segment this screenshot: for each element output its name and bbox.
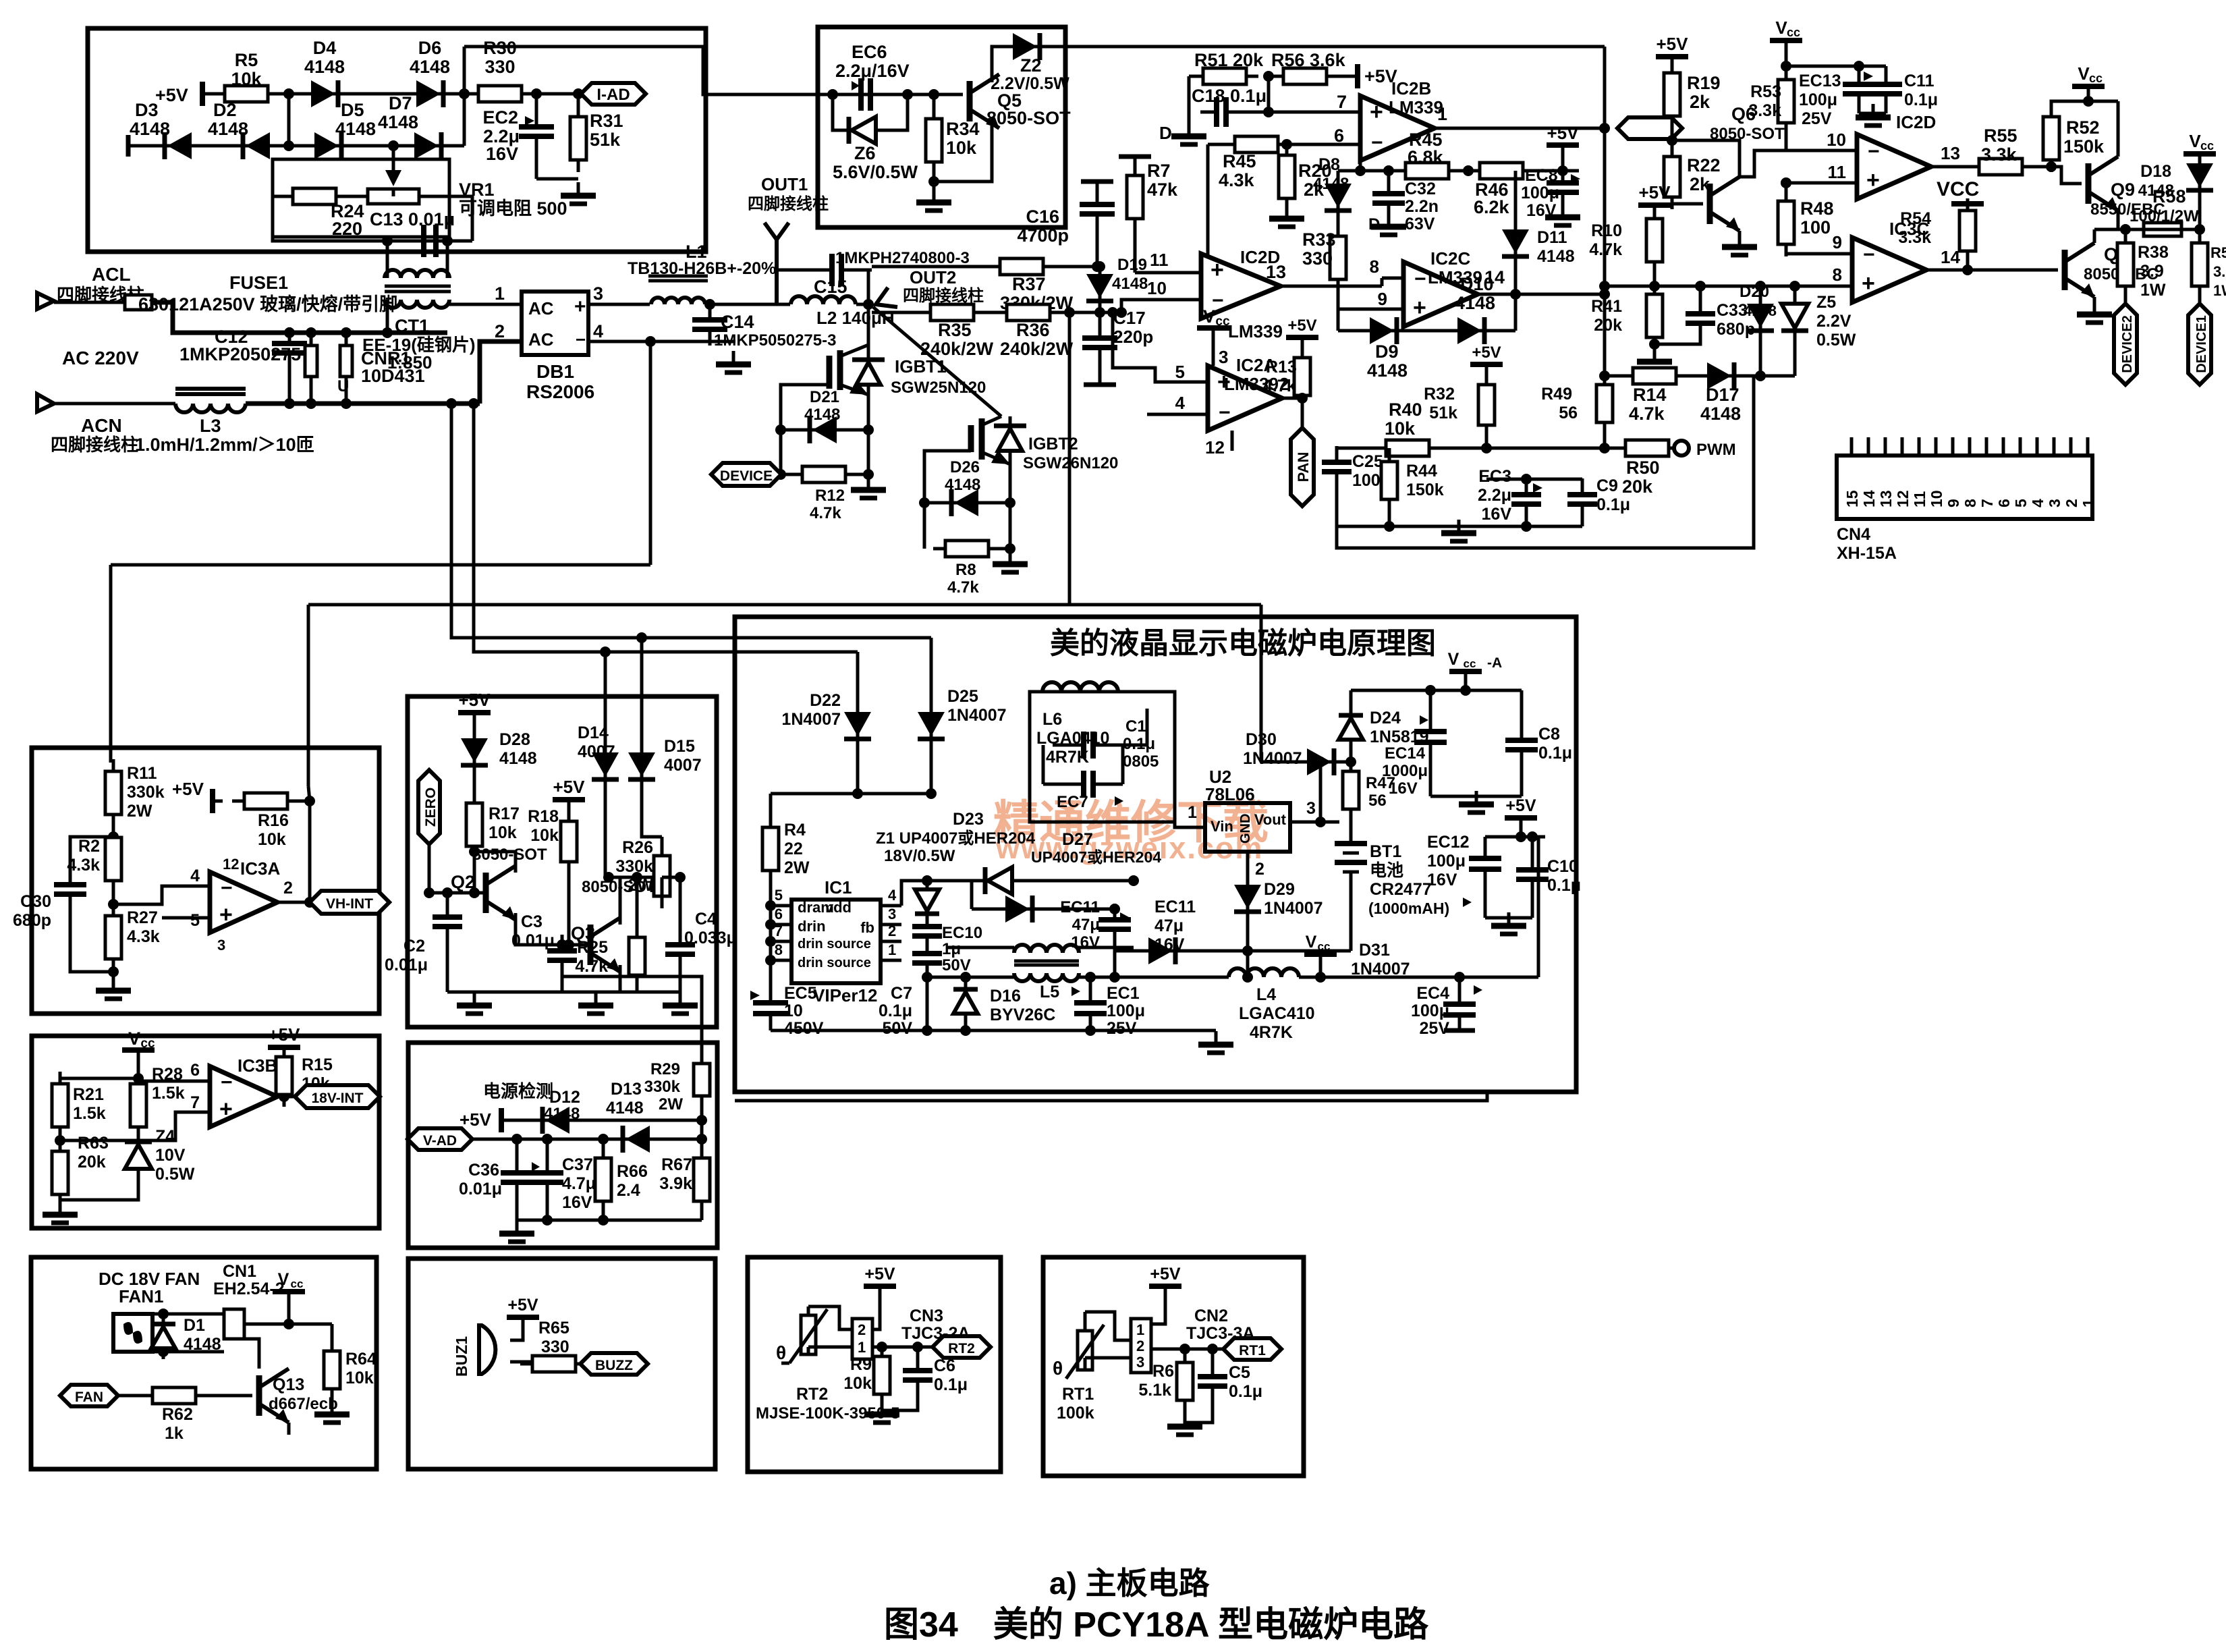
svg-text:四脚接线柱: 四脚接线柱 [51, 435, 138, 455]
wire box7 gnd bus [771, 1029, 1216, 1032]
capacitor EC12 [1484, 837, 1487, 856]
svg-text:3.3k: 3.3k [1981, 144, 2018, 165]
resistor R32 [1470, 362, 1503, 367]
svg-text:DEVICE2: DEVICE2 [2120, 315, 2135, 373]
svg-text:I-AD: I-AD [596, 86, 630, 104]
capacitor C1 [1053, 744, 1074, 747]
svg-text:SGW25N120: SGW25N120 [891, 379, 986, 397]
svg-text:6: 6 [190, 1061, 200, 1080]
svg-text:V: V [128, 1028, 140, 1049]
svg-text:EC5: EC5 [784, 984, 817, 1003]
capacitor C11 [1859, 65, 1886, 68]
connector tag I-AD [581, 83, 646, 105]
svg-text:8: 8 [775, 941, 783, 958]
svg-text:Z6: Z6 [854, 143, 876, 163]
ground R9 [864, 1401, 899, 1423]
wire IC2D-r in11 [1815, 182, 1857, 185]
diode D22 [856, 652, 860, 711]
svg-text:−: − [576, 329, 586, 350]
svg-text:EC12: EC12 [1427, 833, 1470, 852]
terminal BUZZ tag [580, 1353, 648, 1375]
svg-text:0.5W: 0.5W [1816, 331, 1856, 350]
resistor R56 [1271, 68, 1339, 84]
svg-text:D13: D13 [611, 1080, 642, 1099]
svg-text:ACL: ACL [92, 264, 131, 285]
svg-text:IC1: IC1 [825, 877, 852, 898]
svg-text:D24: D24 [1370, 709, 1401, 727]
svg-text:2.2μ: 2.2μ [1478, 486, 1511, 505]
svg-text:R5: R5 [235, 50, 258, 70]
svg-text:IC2C: IC2C [1430, 248, 1470, 269]
svg-text:R53: R53 [1750, 82, 1781, 101]
svg-text:4007: 4007 [578, 742, 615, 761]
svg-text:R33: R33 [1302, 229, 1336, 250]
svg-text:+: + [1866, 167, 1880, 193]
capacitor C8 [1520, 690, 1524, 737]
svg-text:L6: L6 [1042, 710, 1062, 729]
svg-text:C4: C4 [695, 910, 717, 929]
node IGBT1 top [863, 299, 874, 310]
wire fuse to bus [152, 302, 447, 333]
resistor R63 [59, 1127, 62, 1151]
svg-text:a) 主板电路: a) 主板电路 [1049, 1566, 1211, 1601]
svg-text:FAN: FAN [75, 1389, 103, 1405]
box: CN2/RT1 block [1043, 1257, 1304, 1476]
svg-text:C3: C3 [521, 912, 542, 931]
svg-text:VH-INT: VH-INT [326, 896, 373, 912]
transistor Q3 [590, 918, 620, 972]
svg-text:2: 2 [2063, 499, 2080, 507]
wire DB1 pin1 [449, 303, 522, 306]
svg-text:3.9: 3.9 [2213, 263, 2226, 280]
svg-text:1: 1 [1188, 803, 1197, 822]
capacitor C16 [1096, 182, 1099, 201]
svg-text:+5V: +5V [459, 690, 491, 710]
svg-text:4148: 4148 [410, 57, 450, 77]
wire IC2D-r in10 [1786, 149, 1857, 153]
svg-text:R55: R55 [1984, 126, 2018, 146]
svg-text:4148: 4148 [130, 119, 170, 139]
svg-text:D1: D1 [184, 1316, 205, 1335]
op-amp IC3B [210, 1066, 277, 1127]
resistor R9 [881, 1347, 884, 1355]
svg-text:R49: R49 [1541, 385, 1572, 404]
svg-text:RT1: RT1 [1239, 1343, 1266, 1358]
svg-text:0.01μ: 0.01μ [385, 956, 428, 974]
svg-text:D30: D30 [1246, 730, 1277, 749]
Vcc IC2A [1197, 306, 1230, 346]
svg-text:L5: L5 [1040, 983, 1059, 1001]
svg-text:3: 3 [1306, 799, 1316, 818]
resistor R45b [1223, 136, 1290, 153]
svg-text:20k: 20k [78, 1153, 106, 1172]
wire U2 pin1 [1175, 822, 1205, 827]
wire IC3A in5 [162, 916, 210, 920]
svg-text:+5V: +5V [553, 777, 586, 797]
svg-text:D8: D8 [1318, 155, 1340, 174]
terminal DEVICE [711, 463, 781, 486]
resistor R14 [1621, 368, 1688, 384]
svg-text:cc: cc [1215, 314, 1230, 329]
ground box6 [517, 1219, 702, 1222]
resistor R36 [995, 304, 1062, 321]
svg-text:R36: R36 [1016, 320, 1050, 340]
svg-text:C6: C6 [934, 1356, 955, 1375]
svg-text:4148: 4148 [304, 57, 345, 77]
wire IC2A in5 [1113, 312, 1208, 382]
op-amp IC2A [1208, 366, 1282, 431]
svg-text:330k: 330k [127, 783, 165, 802]
svg-text:Q9: Q9 [2111, 180, 2135, 200]
svg-text:R52: R52 [2066, 117, 2100, 138]
diode D3 [154, 132, 202, 159]
svg-text:5.1k: 5.1k [1138, 1381, 1171, 1400]
svg-text:2.4: 2.4 [617, 1181, 640, 1200]
svg-text:R32: R32 [1424, 385, 1455, 404]
svg-text:5: 5 [2012, 499, 2030, 507]
svg-text:LM339: LM339 [1389, 97, 1443, 117]
svg-text:0.01μ: 0.01μ [511, 931, 555, 950]
svg-text:C11: C11 [1904, 72, 1935, 90]
svg-text:−: − [1219, 402, 1231, 424]
svg-text:2.2n: 2.2n [1405, 197, 1439, 216]
wire D22 D25 row [771, 792, 931, 796]
capacitor C10 [1531, 837, 1534, 866]
wire L5 out [1013, 973, 1016, 977]
svg-text:C18 0.1μ: C18 0.1μ [1192, 86, 1267, 106]
resistor R29 [563, 976, 702, 1064]
svg-text:+5V: +5V [1639, 182, 1671, 202]
wire W2 [308, 603, 1261, 607]
svg-text:4148: 4148 [1313, 175, 1349, 193]
svg-text:1N4007: 1N4007 [1243, 749, 1302, 768]
wire Q5 collector [992, 47, 1009, 82]
resistor R5 [213, 86, 280, 102]
resistor R53 [1781, 61, 1791, 72]
terminal ZERO [418, 770, 440, 844]
svg-text:4: 4 [2029, 499, 2047, 507]
svg-text:4148: 4148 [1537, 247, 1575, 266]
diode D16 [964, 977, 968, 987]
resistor R31 [577, 94, 580, 117]
diode D1 real [162, 1314, 165, 1321]
diode IGBT1 freewheel [852, 358, 885, 362]
wire Q9 emitter [2117, 211, 2120, 229]
node wiper [388, 140, 399, 151]
resistor R38 [2117, 231, 2134, 298]
capacitor EC7 [1043, 783, 1074, 786]
svg-text:R25: R25 [577, 938, 608, 957]
terminal VH-INT [310, 891, 389, 914]
transistor Q9 [2088, 157, 2118, 211]
svg-text:DEVICE1: DEVICE1 [2194, 315, 2209, 373]
ground R31 [561, 182, 596, 204]
svg-text:18V-INT: 18V-INT [311, 1091, 363, 1106]
svg-text:V: V [1448, 650, 1459, 669]
svg-text:9: 9 [1945, 499, 1962, 507]
capacitor C2 [446, 893, 449, 914]
svg-text:2.2V/0.5W: 2.2V/0.5W [991, 74, 1069, 93]
svg-text:0.1μ: 0.1μ [1904, 90, 1938, 109]
diode D31 [1115, 949, 1146, 953]
svg-text:D10: D10 [1460, 274, 1494, 294]
capacitor EC2 [535, 94, 538, 122]
svg-text:D17: D17 [1706, 385, 1740, 405]
wire Q2 collector [474, 852, 516, 873]
fan FAN1 [113, 1314, 152, 1352]
svg-text:cc: cc [1318, 940, 1331, 953]
svg-text:4: 4 [190, 866, 200, 885]
wire IGBT1 gate [781, 385, 829, 474]
svg-text:16V: 16V [1427, 871, 1457, 889]
svg-text:10: 10 [1827, 130, 1846, 150]
svg-text:2.2V: 2.2V [1816, 312, 1852, 331]
diode D30 [1296, 748, 1345, 775]
svg-text:680p: 680p [13, 911, 51, 930]
svg-text:10k: 10k [231, 69, 262, 89]
svg-text:4.7k: 4.7k [1589, 240, 1622, 259]
svg-text:cc: cc [2089, 72, 2103, 85]
box: V-AD detect block [408, 1043, 717, 1248]
svg-text:D7: D7 [389, 93, 412, 113]
resistor R44 [1388, 448, 1391, 460]
wire W2 drop left [307, 605, 310, 786]
inductor L6 [1042, 682, 1118, 692]
svg-text:R7: R7 [1147, 161, 1171, 181]
svg-text:2W: 2W [659, 1095, 683, 1113]
capacitor C12 [288, 333, 291, 340]
diode D21 [781, 429, 806, 432]
svg-text:1: 1 [858, 1339, 866, 1356]
svg-text:12: 12 [223, 856, 239, 873]
resistor R40 [1374, 440, 1441, 456]
box: IC3B detect block [32, 1036, 379, 1228]
svg-text:Z1 UP4007或HER204: Z1 UP4007或HER204 [876, 829, 1036, 848]
svg-text:R48: R48 [1800, 198, 1834, 219]
node L1 out [704, 299, 715, 310]
svg-text:IC2B: IC2B [1391, 78, 1431, 99]
svg-text:EC2: EC2 [482, 107, 518, 128]
svg-text:D20: D20 [1740, 283, 1769, 301]
svg-text:4148: 4148 [1744, 302, 1777, 319]
resistor R16 [210, 789, 215, 813]
svg-text:330: 330 [541, 1338, 569, 1356]
svg-text:4.7μ: 4.7μ [562, 1174, 596, 1193]
IC1 pins right [881, 904, 901, 908]
svg-text:51k: 51k [1429, 404, 1457, 422]
svg-text:78L06: 78L06 [1205, 784, 1255, 804]
svg-text:C25: C25 [1352, 452, 1383, 471]
svg-text:R31: R31 [590, 111, 623, 131]
wire D9 D10 row [1338, 329, 1515, 333]
svg-text:+: + [1862, 271, 1875, 296]
wire RT2 CN3 [807, 1306, 810, 1315]
svg-text:vdd: vdd [825, 899, 852, 916]
resistor R4 [762, 815, 779, 883]
svg-text:+5V: +5V [1150, 1265, 1181, 1284]
svg-text:R35: R35 [938, 320, 972, 340]
wire Q9 collector [2117, 101, 2120, 157]
svg-text:330k: 330k [644, 1078, 681, 1096]
svg-text:10k: 10k [1385, 418, 1416, 439]
wire Q8 collector [2093, 229, 2096, 243]
svg-text:10k: 10k [345, 1369, 374, 1387]
wire EC12 C10 bottom [1485, 916, 1532, 920]
capacitor C9 [1581, 479, 1584, 491]
wire D30 entry [1260, 605, 1263, 762]
svg-text:220: 220 [332, 219, 362, 239]
svg-text:4148: 4148 [804, 406, 840, 424]
ground R41 [1637, 348, 1672, 370]
svg-text:D27: D27 [1062, 830, 1093, 849]
diode D6 [406, 80, 454, 107]
resistor R15 [268, 1045, 300, 1050]
transistor Q5 [934, 93, 963, 97]
diode D24 [1349, 690, 1353, 713]
svg-text:9: 9 [1378, 289, 1387, 309]
svg-text:D11: D11 [1537, 228, 1567, 247]
connector CN4 [1837, 456, 2092, 519]
svg-text:9: 9 [1833, 232, 1842, 252]
svg-text:100μ: 100μ [1521, 184, 1559, 202]
diode D9 [1359, 317, 1408, 344]
resistor R25 real [636, 877, 639, 936]
svg-text:R62: R62 [162, 1405, 193, 1424]
wire D12 row [501, 1119, 702, 1122]
wire row R14 D17 [1605, 375, 1795, 378]
wire EC4 stub [1444, 1028, 1475, 1033]
resistor R45 6.8k [1393, 163, 1461, 179]
svg-text:MJSE-100K-3950-5: MJSE-100K-3950-5 [756, 1404, 899, 1423]
svg-text:22: 22 [784, 839, 803, 858]
svg-text:20k: 20k [1594, 316, 1622, 335]
zener Z6 [833, 94, 843, 130]
transformer CT1 secondary [385, 300, 449, 308]
svg-text:−: − [1868, 140, 1880, 163]
svg-text:25V: 25V [1107, 1019, 1137, 1038]
svg-text:1.5k: 1.5k [73, 1104, 106, 1123]
svg-text:ACN: ACN [81, 415, 122, 436]
wire Q2 base [429, 891, 486, 895]
terminal PAN [1301, 398, 1304, 426]
svg-text:BT1: BT1 [1370, 842, 1401, 861]
connector CN1 [224, 1309, 244, 1339]
diode Z2 [1002, 33, 1051, 60]
svg-text:C5: C5 [1229, 1363, 1250, 1382]
svg-text:+5V: +5V [864, 1265, 895, 1284]
svg-text:13: 13 [1941, 143, 1960, 163]
svg-text:V: V [2078, 63, 2090, 84]
svg-text:5: 5 [775, 887, 783, 904]
svg-text:−: − [1371, 132, 1383, 154]
wire IC2C in8 [1382, 277, 1403, 280]
transformer L5 [1014, 945, 1079, 953]
wire box2 row [833, 93, 934, 97]
svg-text:fb: fb [860, 919, 874, 936]
inductor L3 [54, 402, 175, 406]
resistor R26 [661, 837, 664, 854]
svg-text:1: 1 [888, 941, 896, 958]
svg-text:R16: R16 [258, 811, 289, 830]
svg-text:RT2: RT2 [948, 1341, 975, 1356]
wire Vcc-A row [1351, 689, 1522, 692]
svg-text:−: − [1414, 268, 1426, 290]
zener Z1 [926, 881, 929, 888]
svg-text:4148: 4148 [1455, 293, 1495, 313]
op-amp IC2D right [1857, 134, 1931, 199]
svg-text:0.01μ: 0.01μ [459, 1180, 502, 1199]
wire bt1 bottom [1349, 918, 1353, 929]
wire to IGBT2 [873, 307, 1001, 416]
op-amp IC2D left [1201, 254, 1281, 319]
svg-text:drin source: drin source [798, 937, 871, 952]
PWM pad [1674, 441, 1689, 456]
diode D19 [1098, 267, 1102, 273]
ground IGBT1 [867, 474, 870, 487]
svg-text:R37: R37 [1012, 274, 1046, 294]
wire fan bottom [152, 1350, 224, 1354]
resistor R22 [1664, 144, 1680, 209]
resistor R48 [1785, 186, 1788, 201]
op-amp IC3A [210, 872, 277, 933]
svg-text:CN4: CN4 [1837, 525, 1870, 544]
svg-text:Z2: Z2 [1020, 55, 1042, 76]
svg-text:47μ: 47μ [1072, 916, 1100, 934]
transistor Q2 [486, 866, 516, 920]
wire CN1 vcc [244, 1323, 289, 1326]
svg-text:EC13: EC13 [1799, 72, 1841, 90]
node row1-b [459, 88, 470, 99]
svg-text:100/1/2W: 100/1/2W [2130, 207, 2199, 225]
+5V box6 [499, 1108, 504, 1132]
varistor CNR1 [345, 333, 348, 346]
wire DB1 pin3 [588, 303, 650, 306]
fuse FUSE1 [54, 301, 125, 304]
resistor R20 [1281, 139, 1292, 150]
ground Q8 [2093, 297, 2096, 310]
svg-text:20k: 20k [1622, 476, 1653, 497]
resistor R28 [137, 1078, 140, 1084]
svg-text:θ: θ [776, 1342, 786, 1363]
op-amp IC2B [1360, 96, 1435, 161]
box: sync/Q5 block [818, 27, 1065, 227]
svg-text:1N4007: 1N4007 [781, 710, 841, 729]
terminal ACN [37, 394, 54, 412]
resistor R62 [140, 1387, 208, 1404]
svg-text:0.1μ: 0.1μ [934, 1375, 968, 1394]
wire R45 row [1338, 169, 1579, 173]
svg-text:3: 3 [888, 906, 896, 923]
svg-text:100k: 100k [1057, 1404, 1094, 1423]
IGBT2 [968, 425, 974, 452]
svg-text:240k/2W: 240k/2W [920, 339, 994, 359]
svg-text:可调电阻 500: 可调电阻 500 [459, 198, 567, 219]
terminal RT1 tag [1223, 1338, 1281, 1360]
svg-text:R9: R9 [850, 1355, 872, 1374]
potentiometer VR1 [356, 189, 431, 204]
svg-text:100μ: 100μ [1799, 90, 1837, 109]
svg-text:R26: R26 [622, 838, 653, 857]
svg-text:5.6V/0.5W: 5.6V/0.5W [833, 162, 918, 182]
svg-text:10k: 10k [946, 138, 977, 158]
svg-text:V: V [2189, 131, 2201, 151]
svg-text:−: − [221, 877, 233, 900]
svg-text:FUSE1: FUSE1 [229, 273, 288, 293]
svg-text:R40: R40 [1389, 400, 1422, 420]
svg-text:R65: R65 [538, 1319, 569, 1338]
svg-text:R45: R45 [1223, 151, 1256, 171]
svg-text:四脚接线柱: 四脚接线柱 [748, 195, 829, 213]
